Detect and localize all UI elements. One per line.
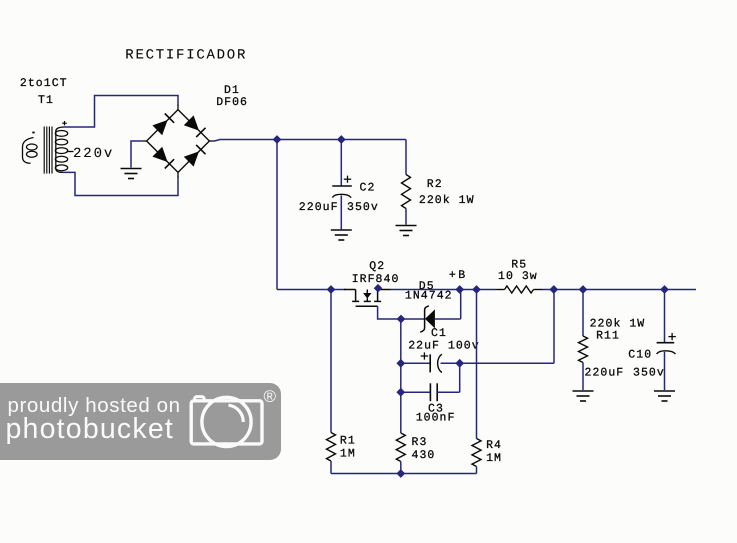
wire C10 bottom lead: [664, 352, 666, 390]
wire R1 bottom lead: [330, 461, 332, 474]
svg-text:220uF: 220uF: [585, 367, 625, 380]
wire R3 bottom lead: [400, 462, 402, 474]
diode D5 1N4742: [401, 318, 424, 320]
wire top rail: [214, 140, 406, 142]
capacitor C2: [332, 185, 352, 187]
svg-text:+B: +B: [449, 269, 468, 282]
wire R4 bottom lead: [476, 467, 478, 474]
svg-text:C2: C2: [360, 181, 376, 194]
resistor R11: [579, 336, 588, 363]
svg-text:C10: C10: [628, 349, 652, 362]
svg-text:RECTIFICADOR: RECTIFICADOR: [125, 48, 247, 64]
node bottom rail / R3: [396, 469, 405, 478]
svg-text:R4: R4: [486, 439, 502, 452]
transistor Q2 IRF840: [344, 289, 356, 291]
svg-text:T1: T1: [38, 94, 54, 107]
ground at C10: [654, 390, 675, 392]
node +B: [472, 285, 481, 294]
svg-text:220uF: 220uF: [299, 201, 339, 214]
resistor R1: [327, 433, 336, 462]
photobucket watermark: [0, 383, 281, 460]
svg-text:100v: 100v: [448, 340, 480, 353]
svg-text:R1: R1: [340, 435, 356, 448]
wire R2 top lead: [405, 140, 407, 175]
resistor R3: [396, 433, 405, 462]
node top rail / C2: [337, 135, 346, 144]
resistor R4: [472, 439, 481, 467]
node rail / C10: [660, 285, 669, 294]
wire C2 top lead: [340, 140, 342, 186]
svg-text:1N4742: 1N4742: [405, 290, 453, 303]
svg-text:DF06: DF06: [216, 96, 248, 109]
node C1 left: [396, 359, 405, 368]
svg-text:22uF: 22uF: [408, 340, 440, 353]
transformer T1 secondary winding: [56, 127, 65, 132]
svg-text:350v: 350v: [633, 367, 665, 380]
ground at R2: [396, 225, 417, 227]
ground at R11: [573, 390, 594, 392]
node C1 right / C3 tap: [455, 359, 464, 368]
wire R11 bottom lead: [582, 363, 584, 391]
node Q2 drain: [374, 284, 383, 293]
transformer T1 primary winding: [23, 138, 34, 164]
svg-text:100nF: 100nF: [416, 411, 456, 424]
svg-text:2to1CT: 2to1CT: [20, 77, 68, 90]
svg-text:IRF840: IRF840: [352, 273, 400, 286]
wire mid rail left: [277, 289, 346, 291]
wire bottom rail: [331, 473, 477, 475]
wire R4 top lead: [476, 290, 478, 439]
resistor R5: [477, 289, 497, 291]
svg-text:220k 1W: 220k 1W: [419, 194, 475, 207]
node top rail / main vertical: [273, 135, 282, 144]
svg-text:430: 430: [412, 449, 436, 462]
svg-text:Q2: Q2: [369, 260, 385, 273]
transformer T1 core: [43, 127, 45, 174]
node C3 left: [396, 388, 405, 397]
svg-text:R2: R2: [427, 178, 443, 191]
svg-text:1M: 1M: [486, 452, 502, 465]
svg-text:R3: R3: [412, 436, 428, 449]
node gate / D5 / divider: [397, 315, 406, 324]
wire bridge left to ground: [131, 141, 142, 168]
node D5 top: [455, 285, 464, 294]
wire secondary tap dash: [67, 151, 74, 153]
ground at bridge: [121, 168, 142, 170]
wire C2 bottom lead: [340, 195, 342, 229]
capacitor C1: [401, 362, 430, 364]
node C1 wire / R5 rail: [549, 285, 558, 294]
wire secondary bottom to bridge: [63, 172, 179, 195]
wire C10 top lead: [664, 290, 666, 343]
node mid rail / R1: [327, 285, 336, 294]
wire R1 top lead: [330, 290, 332, 433]
wire R11 top lead: [582, 290, 584, 337]
bridge rectifier D1: [147, 110, 178, 141]
ground at C2: [331, 229, 352, 231]
wire mid rail to +B: [390, 289, 477, 291]
svg-text:C1: C1: [431, 327, 447, 340]
wire secondary top to bridge: [65, 96, 179, 128]
svg-text:350v: 350v: [347, 201, 379, 214]
svg-text:220v: 220v: [73, 146, 114, 162]
wire Q2 gate: [378, 306, 401, 319]
wire main vertical: [276, 140, 278, 290]
svg-text:1M: 1M: [340, 448, 356, 461]
resistor R2: [402, 175, 411, 209]
svg-text:R11: R11: [596, 329, 620, 342]
svg-text:10 3w: 10 3w: [498, 270, 538, 283]
capacitor C3: [401, 391, 431, 393]
node rail / R11: [579, 285, 588, 294]
capacitor C10: [657, 342, 675, 344]
wire R2 bottom lead: [405, 209, 407, 225]
wire divider vertical: [400, 319, 402, 433]
